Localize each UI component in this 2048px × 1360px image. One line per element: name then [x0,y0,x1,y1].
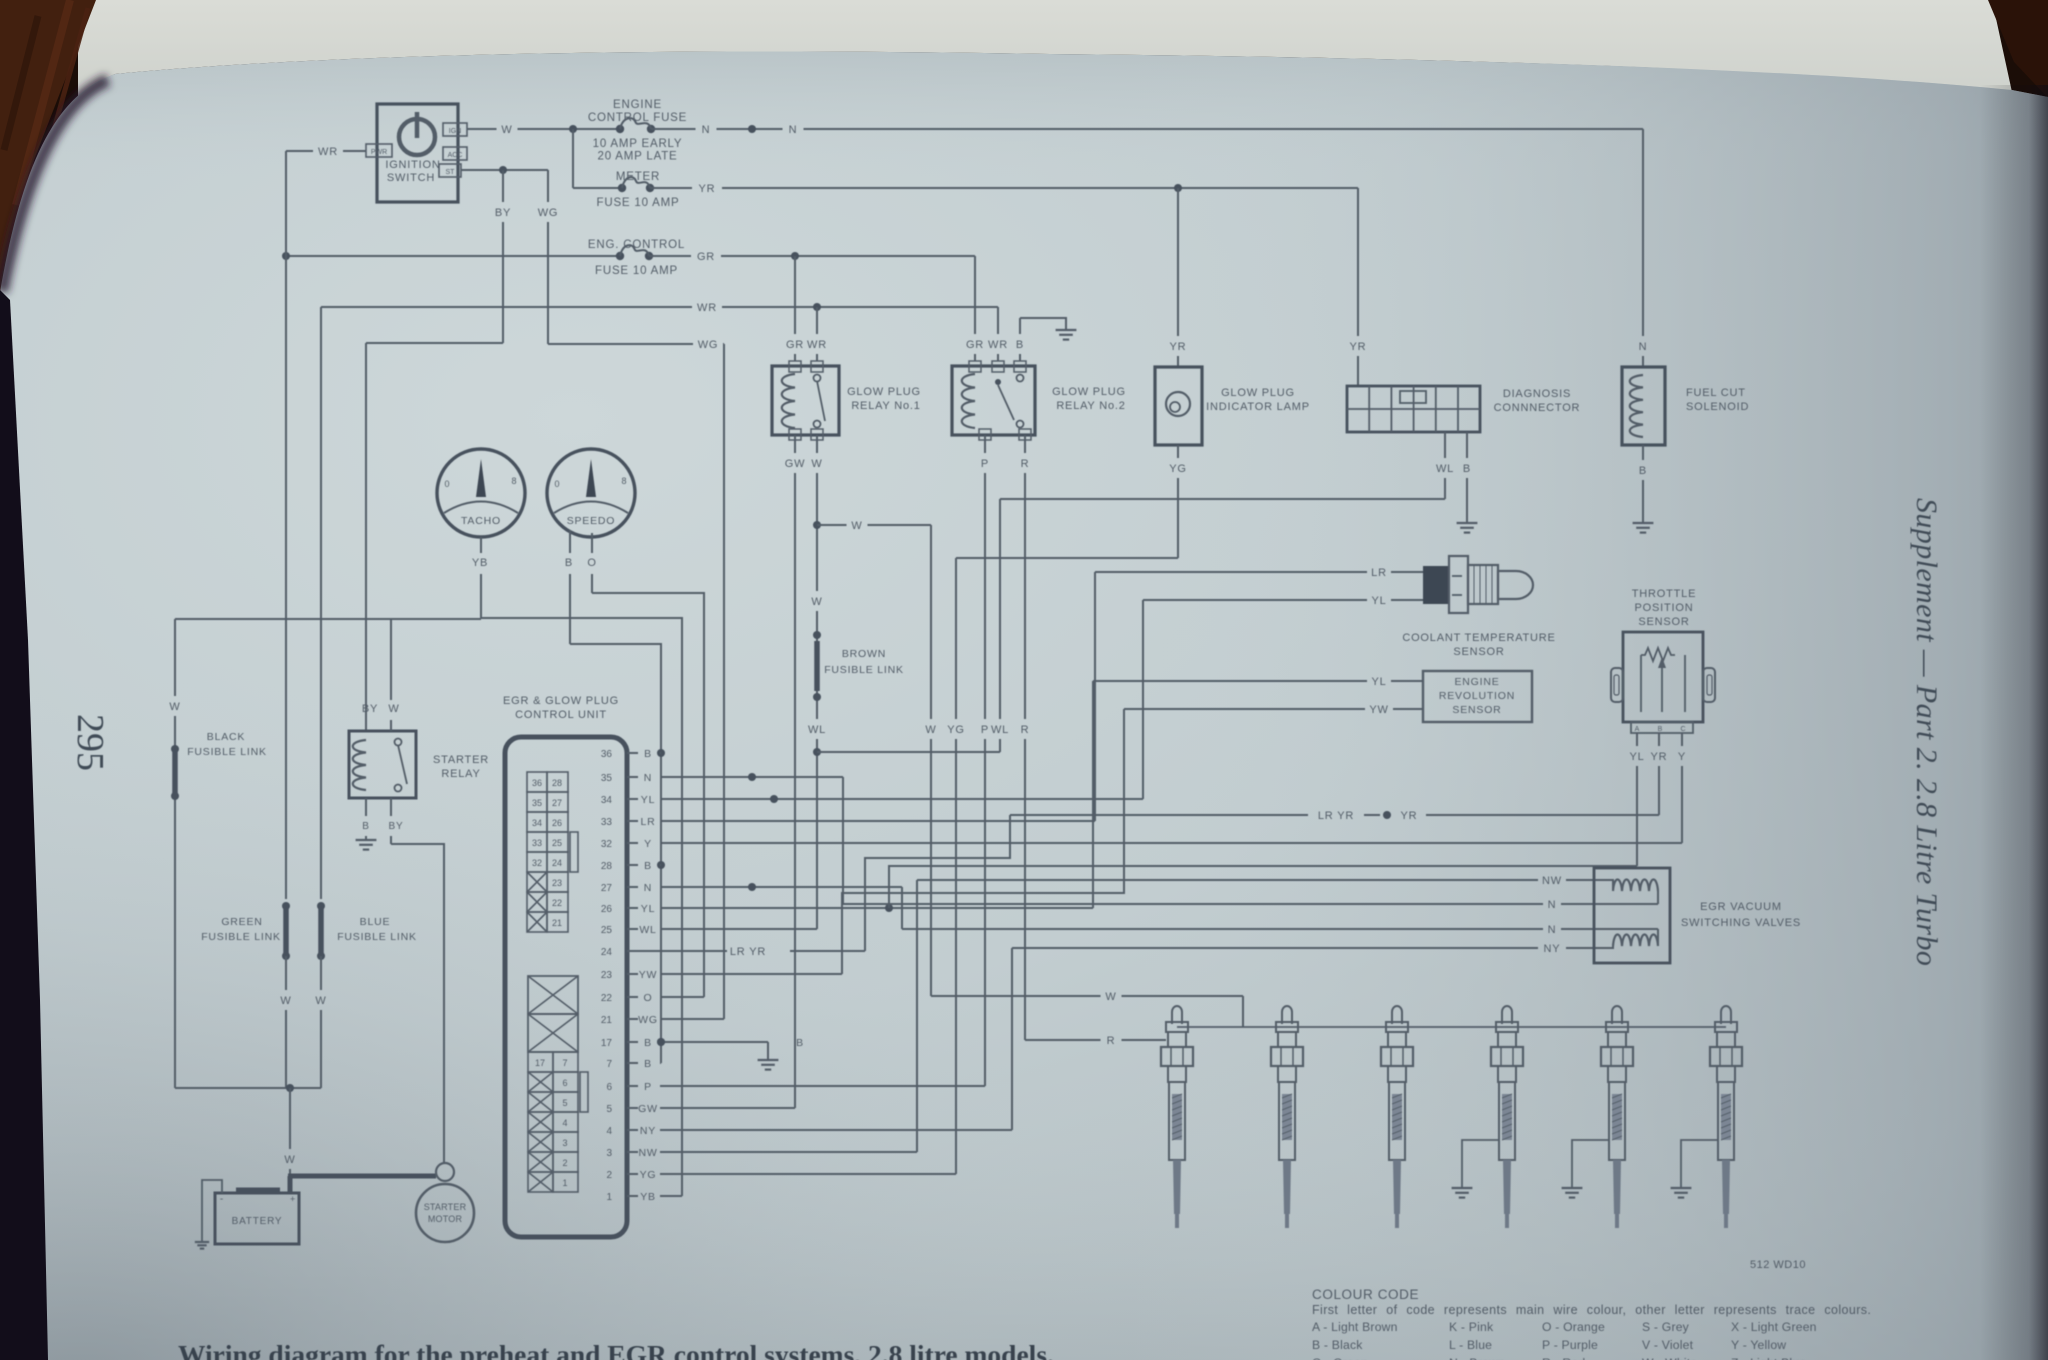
svg-text:LR: LR [640,816,655,828]
svg-text:Y: Y [1678,751,1686,763]
svg-text:YR: YR [1651,751,1668,763]
svg-text:GR: GR [966,339,984,351]
svg-text:SWITCH: SWITCH [387,172,435,184]
svg-text:YR: YR [699,183,716,195]
svg-text:ENGINE: ENGINE [1454,676,1499,688]
svg-text:22: 22 [552,898,562,908]
svg-text:WL: WL [1436,463,1454,475]
svg-text:W: W [811,458,822,470]
svg-text:20 AMP LATE: 20 AMP LATE [598,151,678,163]
svg-text:GLOW PLUG: GLOW PLUG [1221,387,1295,399]
svg-text:28: 28 [552,778,562,788]
svg-text:3: 3 [606,1148,612,1159]
svg-text:LR: LR [1371,567,1387,579]
svg-text:-: - [220,1194,224,1205]
svg-text:GW: GW [638,1103,658,1115]
svg-text:26: 26 [601,904,613,915]
svg-text:MOTOR: MOTOR [428,1214,463,1224]
svg-text:W: W [501,124,512,136]
svg-text:STARTER: STARTER [433,754,489,766]
svg-text:B: B [644,1037,652,1049]
svg-text:W: W [315,995,326,1007]
svg-text:ENG. CONTROL: ENG. CONTROL [588,239,685,251]
svg-text:7: 7 [562,1058,567,1068]
svg-text:P: P [981,458,989,470]
svg-text:28: 28 [601,861,613,872]
svg-text:ST: ST [446,169,456,176]
svg-text:295: 295 [69,714,111,771]
svg-text:22: 22 [601,993,613,1004]
svg-text:Y - Yellow: Y - Yellow [1731,1338,1786,1352]
svg-text:R - Red: R - Red [1542,1356,1585,1360]
svg-text:+: + [290,1194,296,1204]
svg-text:S - Grey: S - Grey [1642,1320,1690,1334]
svg-text:POSITION: POSITION [1635,602,1694,614]
svg-text:X - Light Green: X - Light Green [1731,1320,1817,1334]
svg-text:23: 23 [552,878,562,888]
svg-text:RELAY: RELAY [441,768,480,780]
svg-text:ACC: ACC [448,152,463,159]
svg-text:WL: WL [808,724,826,736]
svg-text:21: 21 [552,918,562,928]
svg-text:EGR & GLOW PLUG: EGR & GLOW PLUG [503,695,619,707]
svg-text:SOLENOID: SOLENOID [1686,401,1749,413]
svg-text:COLOUR CODE: COLOUR CODE [1312,1287,1419,1302]
svg-text:8: 8 [621,476,626,486]
svg-text:W: W [811,596,822,608]
svg-text:4: 4 [606,1126,612,1137]
svg-text:YL: YL [1371,595,1386,607]
svg-text:FUSE 10 AMP: FUSE 10 AMP [595,265,678,277]
svg-text:1: 1 [562,1178,567,1188]
svg-text:N: N [1639,341,1648,353]
svg-text:1: 1 [606,1192,612,1203]
svg-text:IGNITION: IGNITION [385,159,440,171]
svg-text:2: 2 [562,1158,567,1168]
svg-text:W: W [851,520,862,532]
svg-text:K - Pink: K - Pink [1449,1320,1494,1334]
svg-text:WG: WG [638,1014,658,1026]
svg-text:FUSIBLE LINK: FUSIBLE LINK [201,931,281,943]
svg-text:33: 33 [601,817,613,828]
svg-text:FUSE 10 AMP: FUSE 10 AMP [597,197,680,209]
svg-text:25: 25 [552,838,562,848]
svg-text:2: 2 [606,1170,612,1181]
svg-text:V - Violet: V - Violet [1642,1338,1694,1352]
svg-text:CONTROL FUSE: CONTROL FUSE [588,112,687,124]
svg-text:YR: YR [1350,341,1367,353]
svg-text:23: 23 [601,970,613,981]
svg-text:O - Orange: O - Orange [1542,1320,1605,1334]
svg-text:Y: Y [644,838,652,850]
svg-text:25: 25 [601,925,613,936]
svg-text:PWR: PWR [371,149,387,156]
svg-text:IGN: IGN [449,128,461,135]
svg-text:N: N [789,124,798,136]
svg-text:FUSIBLE LINK: FUSIBLE LINK [187,746,267,758]
svg-text:27: 27 [552,798,562,808]
svg-text:W: W [388,703,399,715]
svg-text:N: N [702,124,711,136]
svg-text:B: B [362,821,369,832]
svg-text:W: W [169,701,180,713]
svg-text:G - Green: G - Green [1312,1356,1368,1360]
svg-text:33: 33 [532,838,542,848]
svg-text:BLACK: BLACK [207,731,245,743]
svg-text:W: W [1105,991,1116,1003]
svg-text:27: 27 [601,883,613,894]
svg-text:THROTTLE: THROTTLE [1632,588,1696,600]
svg-text:O: O [644,992,653,1004]
svg-text:BROWN: BROWN [842,648,886,660]
svg-text:YL: YL [641,903,655,915]
svg-text:6: 6 [606,1082,612,1093]
svg-text:ENGINE: ENGINE [613,99,662,111]
svg-text:N: N [644,772,652,784]
svg-text:INDICATOR LAMP: INDICATOR LAMP [1206,401,1310,413]
svg-text:24: 24 [552,858,562,868]
svg-text:First letter of code represent: First letter of code represents main wir… [1312,1303,1871,1317]
svg-text:0: 0 [444,479,449,489]
svg-text:0: 0 [554,479,559,489]
svg-text:WR: WR [807,339,827,351]
svg-text:CONNNECTOR: CONNNECTOR [1494,402,1581,414]
svg-text:O: O [587,557,596,569]
svg-text:YW: YW [639,969,658,981]
svg-text:W: W [280,995,291,1007]
svg-text:WR: WR [318,146,338,158]
svg-text:26: 26 [552,818,562,828]
svg-text:GR: GR [786,339,804,351]
svg-text:SPEEDO: SPEEDO [567,515,616,527]
svg-text:21: 21 [601,1015,613,1026]
svg-text:YL: YL [1629,751,1644,763]
svg-text:YB: YB [640,1191,656,1203]
svg-text:C: C [1680,726,1685,733]
svg-text:FUSIBLE LINK: FUSIBLE LINK [824,664,904,676]
svg-text:34: 34 [532,818,542,828]
svg-text:SENSOR: SENSOR [1453,646,1504,658]
svg-text:FUEL CUT: FUEL CUT [1686,387,1746,399]
svg-text:YW: YW [1369,704,1388,716]
svg-text:N: N [1548,924,1557,936]
svg-text:NY: NY [640,1125,656,1137]
svg-text:TACHO: TACHO [461,515,501,527]
svg-text:34: 34 [601,795,613,806]
svg-text:5: 5 [606,1104,612,1115]
svg-text:B: B [1639,465,1647,477]
svg-text:L - Blue: L - Blue [1449,1338,1492,1352]
svg-text:5: 5 [562,1098,567,1108]
svg-text:NY: NY [1544,943,1561,955]
svg-text:B: B [1463,463,1471,475]
svg-text:BATTERY: BATTERY [232,1216,283,1227]
svg-text:REVOLUTION: REVOLUTION [1439,690,1515,702]
svg-text:GREEN: GREEN [221,916,262,928]
svg-text:WL: WL [991,724,1009,736]
svg-text:B: B [1658,726,1663,733]
svg-text:YL: YL [1371,676,1386,688]
svg-text:METER: METER [616,171,660,183]
svg-text:8: 8 [511,476,516,486]
svg-text:Wiring diagram for the preheat: Wiring diagram for the preheat and EGR c… [178,1339,1054,1360]
svg-text:6: 6 [562,1078,567,1088]
svg-text:W: W [925,724,936,736]
svg-text:P: P [981,724,989,736]
svg-text:B: B [565,557,573,569]
svg-text:RELAY No.2: RELAY No.2 [1056,400,1125,412]
svg-text:YG: YG [947,724,965,736]
svg-text:4: 4 [562,1118,567,1128]
svg-text:32: 32 [532,858,542,868]
svg-text:B: B [1016,339,1024,351]
svg-text:SWITCHING VALVES: SWITCHING VALVES [1681,917,1801,929]
svg-text:GW: GW [785,458,806,470]
svg-text:B: B [644,1058,652,1070]
svg-text:YG: YG [640,1169,657,1181]
svg-text:17: 17 [601,1038,613,1049]
svg-text:CONTROL UNIT: CONTROL UNIT [515,709,607,721]
svg-text:FUSIBLE LINK: FUSIBLE LINK [337,931,417,943]
svg-text:W: W [284,1154,295,1166]
svg-text:N: N [644,882,652,894]
svg-text:DIAGNOSIS: DIAGNOSIS [1503,388,1571,400]
svg-text:P - Purple: P - Purple [1542,1338,1598,1352]
svg-text:WR: WR [988,339,1008,351]
svg-text:GR: GR [697,251,715,263]
svg-text:N - Brown: N - Brown [1449,1356,1505,1360]
svg-text:WR: WR [697,302,717,314]
svg-text:NW: NW [638,1147,657,1159]
svg-text:B: B [644,748,652,760]
svg-text:R: R [1107,1035,1116,1047]
svg-text:WG: WG [698,339,719,351]
svg-text:WG: WG [538,207,559,219]
svg-text:A - Light Brown: A - Light Brown [1312,1320,1398,1334]
svg-text:NW: NW [1542,875,1562,887]
svg-text:BLUE: BLUE [360,916,391,928]
svg-text:YR: YR [1401,810,1418,822]
svg-text:SENSOR: SENSOR [1638,616,1689,628]
svg-text:YR: YR [1170,341,1187,353]
svg-text:SENSOR: SENSOR [1452,704,1501,716]
svg-text:3: 3 [562,1138,567,1148]
svg-text:WL: WL [639,924,656,936]
svg-text:BY: BY [495,207,511,219]
svg-text:35: 35 [601,773,613,784]
svg-text:24: 24 [601,947,613,958]
svg-text:W - White: W - White [1642,1356,1697,1360]
svg-text:R: R [1021,458,1030,470]
svg-text:36: 36 [532,778,542,788]
svg-text:B - Black: B - Black [1312,1338,1363,1352]
svg-text:17: 17 [535,1058,545,1068]
svg-text:YL: YL [641,794,655,806]
svg-text:LR YR: LR YR [730,946,766,958]
svg-text:N: N [1548,899,1557,911]
svg-text:35: 35 [532,798,542,808]
svg-text:36: 36 [601,749,613,760]
svg-text:STARTER: STARTER [424,1202,467,1212]
svg-text:GLOW PLUG: GLOW PLUG [1052,386,1126,398]
svg-text:B: B [796,1037,804,1049]
svg-text:YB: YB [472,557,488,569]
svg-text:R: R [1021,724,1030,736]
svg-text:P: P [644,1081,652,1093]
svg-text:A: A [1635,726,1640,733]
svg-text:32: 32 [601,839,613,850]
svg-text:RELAY No.1: RELAY No.1 [851,400,920,412]
svg-text:EGR VACUUM: EGR VACUUM [1700,901,1782,913]
svg-text:512 WD10: 512 WD10 [1750,1259,1806,1271]
svg-text:GLOW PLUG: GLOW PLUG [847,386,921,398]
svg-text:COOLANT TEMPERATURE: COOLANT TEMPERATURE [1402,632,1555,644]
svg-text:Z - Light Blue: Z - Light Blue [1731,1356,1806,1360]
svg-text:Supplement — Part 2. 2.8 Litr: Supplement — Part 2. 2.8 Litre Turbo [1910,498,1943,966]
svg-text:BY: BY [389,821,404,832]
svg-text:YG: YG [1169,463,1187,475]
svg-text:7: 7 [606,1059,612,1070]
svg-text:BY: BY [362,703,378,715]
svg-text:B: B [644,860,652,872]
svg-text:LR YR: LR YR [1318,810,1354,822]
svg-text:10 AMP EARLY: 10 AMP EARLY [593,138,683,150]
